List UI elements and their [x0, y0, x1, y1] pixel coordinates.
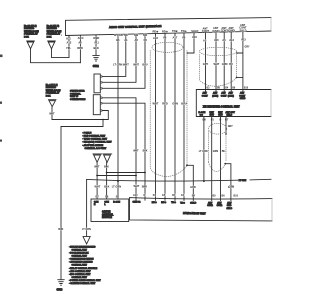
svg-text:LT GRN: LT GRN — [112, 185, 121, 189]
svg-text:(GND): (GND) — [228, 95, 234, 97]
svg-text:GRN: GRN — [229, 185, 235, 189]
svg-text:P8: P8 — [105, 194, 109, 198]
svg-text:GRY: GRY — [245, 46, 250, 49]
shield S2 dotted antenna bundle — [199, 47, 236, 86]
svg-text:B10: B10 — [234, 195, 239, 198]
svg-text:(GND): (GND) — [212, 29, 220, 33]
svg-text:CONTROL: CONTROL — [102, 214, 114, 216]
svg-text:WHT: WHT — [153, 102, 159, 106]
svg-text:CONTROL UNIT: CONTROL UNIT — [72, 249, 88, 251]
svg-text:H: H — [94, 204, 96, 206]
svg-text:SHLD: SHLD — [191, 29, 198, 33]
node shield S1 drain — [186, 164, 188, 166]
svg-text:A8: A8 — [163, 36, 167, 40]
svg-text:A16: A16 — [192, 35, 197, 39]
svg-text:(GND): (GND) — [228, 29, 236, 33]
ground G502 — [93, 55, 99, 61]
svg-text:BOX: BOX — [24, 36, 29, 38]
svg-text:ANT: ANT — [221, 92, 226, 95]
svg-text:A14: A14 — [229, 38, 234, 42]
wire IG1 — [68, 36, 70, 58]
svg-text:YEL: YEL — [66, 46, 71, 50]
svg-text:A11: A11 — [94, 40, 99, 44]
svg-text:GRN 32: GRN 32 — [133, 202, 142, 204]
pin J1-3 — [100, 87, 102, 89]
wire U3 NAV OUT2 — [220, 117, 222, 201]
svg-text:BLK: BLK — [94, 46, 99, 50]
arrow A1 — [83, 237, 90, 244]
svg-text:D1: D1 — [153, 194, 157, 197]
svg-text:A15: A15 — [214, 38, 219, 42]
svg-text:DRIVER'S: DRIVER'S — [24, 28, 35, 30]
fuse F1 triangle — [27, 41, 35, 49]
svg-text:SHLD: SHLD — [227, 115, 233, 117]
svg-text:GRY: GRY — [203, 62, 209, 66]
svg-text:RD⊖: RD⊖ — [162, 29, 169, 33]
svg-text:B4: B4 — [192, 194, 196, 197]
svg-text:ACC: ACC — [78, 36, 84, 40]
fuse F5 triangle — [103, 154, 112, 162]
pin numbers above U3 — [207, 86, 249, 89]
svg-text:(GND): (GND) — [212, 95, 218, 97]
svg-text:TD⊖: TD⊖ — [181, 29, 187, 33]
svg-text:MODULE: MODULE — [102, 217, 112, 219]
pin J2-3 — [100, 110, 102, 112]
svg-text:• IMA (GAS) CONTROL UNIT: • IMA (GAS) CONTROL UNIT — [82, 141, 112, 144]
node B-CAN bus junction at gauge — [117, 180, 119, 182]
wire ANT2 — [215, 32, 217, 89]
svg-text:⊕⊖: ⊕⊖ — [200, 114, 204, 117]
svg-text:BOX: BOX — [47, 36, 52, 38]
svg-text:WHT: WHT — [214, 62, 220, 66]
pin labels U1 antenna section — [202, 23, 247, 33]
wire GND — [95, 35, 97, 55]
svg-text:• RELAY CONTROL MODULE: • RELAY CONTROL MODULE — [69, 267, 98, 270]
svg-text:BLU: BLU — [142, 63, 147, 67]
svg-text:BLK: BLK — [104, 166, 109, 169]
svg-text:WHT: WHT — [133, 63, 139, 67]
svg-text:B5: B5 — [213, 194, 217, 197]
svg-text:• EPS CONTROL UNIT: • EPS CONTROL UNIT — [69, 274, 91, 276]
wire RD- — [164, 34, 166, 201]
svg-text:TD⊕: TD⊕ — [172, 29, 178, 33]
wire TD- — [183, 33, 185, 200]
svg-text:A17: A17 — [173, 36, 178, 40]
pin labels U1 left section (IG1/ACC/GND + pin numbers + wire colors) — [66, 36, 99, 40]
svg-text:A13: A13 — [241, 38, 246, 42]
svg-text:• COMBINATION SWITCH: • COMBINATION SWITCH — [69, 258, 94, 261]
svg-text:NAVIGATION UNIT: NAVIGATION UNIT — [183, 211, 206, 215]
wire U3 B-CAN down to bus — [203, 117, 205, 182]
svg-text:CONTROL: CONTROL — [70, 93, 81, 95]
node L1/L2 junction — [102, 119, 104, 121]
svg-text:GRN: GRN — [222, 62, 228, 66]
svg-text:OUT2: OUT2 — [217, 205, 223, 207]
wire RD+ — [155, 34, 157, 201]
node shield S3 top connection — [225, 133, 227, 135]
svg-text:B-CAN: B-CAN — [113, 201, 120, 204]
wire J2-3 to fuse line — [52, 111, 108, 120]
svg-text:NAV: NAV — [210, 111, 215, 114]
svg-text:• ABS CONTROL UNIT: • ABS CONTROL UNIT — [69, 270, 91, 273]
svg-text:ANT: ANT — [240, 92, 245, 95]
fuse text No.32 — [24, 25, 39, 39]
svg-text:UNDER-DASH: UNDER-DASH — [47, 30, 62, 33]
svg-text:BLK: BLK — [104, 185, 109, 189]
wire U3 shield pin — [225, 117, 227, 135]
svg-text:A6: A6 — [78, 41, 82, 45]
pin labels U1 comm section — [153, 29, 199, 34]
svg-text:• AUTOMATIC LIGHTING: • AUTOMATIC LIGHTING — [69, 261, 93, 264]
svg-text:SUBWOOFER: SUBWOOFER — [70, 91, 85, 93]
svg-text:B8: B8 — [217, 87, 221, 89]
wire F5 down to gauge — [106, 162, 108, 199]
svg-text:RED: RED — [162, 102, 168, 106]
wire U3 NAV OUT1 — [211, 117, 213, 201]
svg-text:DRIVER'S: DRIVER'S — [46, 87, 57, 89]
wire shield S1 drain to nav — [187, 165, 193, 200]
svg-text:B-CAN: B-CAN — [199, 111, 206, 114]
svg-text:WHT: WHT — [133, 149, 139, 152]
svg-text:CAN: CAN — [94, 201, 99, 204]
svg-text:• CLIMATE CONTROL UNIT: • CLIMATE CONTROL UNIT — [69, 282, 96, 285]
svg-text:CONNECTORS: CONNECTORS — [70, 99, 86, 101]
fuse F4 triangle — [93, 154, 102, 162]
pin J2-2 — [100, 102, 102, 104]
fuse text No.4 — [46, 84, 61, 98]
node line1 left junction — [106, 172, 108, 174]
svg-text:B4: B4 — [225, 86, 229, 89]
wire ground bus G503 — [60, 127, 62, 280]
wire J2-2 to nav — [102, 103, 145, 200]
svg-text:RD⊕: RD⊕ — [153, 30, 160, 34]
navigation unit box U4 — [130, 198, 273, 221]
svg-text:SHLD: SHLD — [240, 28, 247, 32]
svg-text:ANT: ANT — [217, 201, 222, 204]
svg-text:GRN: GRN — [190, 186, 196, 189]
svg-text:UNIT 8P: UNIT 8P — [70, 96, 79, 98]
svg-text:LT GRN: LT GRN — [239, 180, 247, 182]
ground G503 — [58, 280, 64, 286]
wire B-CAN LT GRN vertical — [117, 35, 119, 200]
node line2 right junction — [135, 175, 137, 177]
pin J1-1 — [100, 76, 102, 78]
svg-text:G503: G503 — [57, 289, 64, 292]
shield S3 dotted nav pair — [208, 123, 226, 171]
svg-text:XM RECEIVER CONTROL UNIT: XM RECEIVER CONTROL UNIT — [203, 105, 240, 108]
svg-text:• POWER SLIDE CONTROL UNIT: • POWER SLIDE CONTROL UNIT — [69, 280, 101, 282]
svg-text:G502: G502 — [93, 65, 100, 68]
wire SHLD jog top — [187, 33, 194, 53]
list of units B — [69, 245, 101, 285]
wire F1 to ACC — [31, 49, 81, 63]
svg-text:CONT: CONT — [202, 95, 209, 97]
node line1 right junction — [144, 172, 146, 174]
wire F3 down — [51, 107, 53, 120]
wire B-CAN bus line3 LT GRN — [87, 179, 271, 181]
svg-text:A10: A10 — [133, 194, 138, 197]
svg-text:RD⊖: RD⊖ — [161, 201, 166, 204]
svg-text:GRY: GRY — [228, 125, 233, 128]
svg-text:CONT: CONT — [221, 95, 228, 97]
nav pin numbers — [133, 194, 239, 198]
svg-text:ANT: ANT — [227, 202, 232, 205]
pin J1-2 — [100, 81, 102, 83]
svg-text:B10: B10 — [244, 87, 249, 89]
svg-text:SW: SW — [124, 33, 129, 37]
svg-text:BOX: BOX — [46, 95, 51, 97]
svg-text:No.21 (15 A): No.21 (15 A) — [47, 25, 60, 28]
pin J2-1 — [100, 97, 102, 99]
svg-text:ANT: ANT — [229, 92, 234, 95]
svg-text:GRN: GRN — [172, 102, 178, 106]
wire link line2 WHT — [97, 175, 136, 177]
svg-text:• TPMS CONTROL UNIT: • TPMS CONTROL UNIT — [82, 139, 107, 141]
svg-text:FUSE/RELAY: FUSE/RELAY — [47, 33, 61, 36]
svg-text:UNDER-DASH: UNDER-DASH — [46, 89, 61, 92]
svg-text:CONTROL UNIT: CONTROL UNIT — [72, 256, 88, 258]
svg-text:SHLD: SHLD — [240, 98, 246, 100]
fuse F2 triangle — [48, 41, 56, 49]
svg-text:C6: C6 — [144, 38, 148, 42]
svg-text:BLU: BLU — [181, 102, 186, 106]
wire NAV1 to connector J1 pin A — [102, 34, 126, 76]
wire NAV3 to connector J1 pin C — [102, 34, 145, 88]
svg-text:A4: A4 — [222, 38, 226, 42]
connector box J2 — [93, 95, 100, 115]
svg-text:CONTROL UNIT: CONTROL UNIT — [72, 277, 88, 279]
svg-text:WHT: WHT — [95, 185, 101, 189]
svg-text:B7: B7 — [96, 194, 100, 198]
svg-text:B3: B3 — [207, 87, 211, 89]
svg-text:DRIVER'S: DRIVER'S — [47, 28, 58, 30]
svg-text:LT GRN: LT GRN — [113, 63, 122, 67]
wire ACC — [79, 35, 81, 62]
svg-text:ANT: ANT — [203, 92, 208, 95]
pin labels U1 mid section — [114, 33, 147, 37]
svg-text:GAUGE: GAUGE — [102, 211, 111, 214]
svg-text:GND: GND — [93, 36, 99, 40]
svg-text:WHT: WHT — [49, 113, 55, 116]
svg-text:TD⊖: TD⊖ — [180, 201, 185, 204]
list of units A — [82, 132, 112, 150]
svg-text:BLK: BLK — [143, 149, 148, 152]
wire NAV2 to connector J1 pin B — [102, 34, 136, 82]
wire ANT4 — [230, 32, 232, 89]
wire J2-1 to nav — [102, 98, 136, 200]
svg-text:B9: B9 — [232, 87, 236, 89]
svg-text:ANT: ANT — [208, 201, 213, 204]
node B-CAN bus junction at U3 — [203, 180, 205, 182]
svg-text:• FAN CONTROL UNIT: • FAN CONTROL UNIT — [82, 135, 106, 138]
svg-text:IG1: IG1 — [66, 36, 71, 40]
svg-text:• MULTIPLEX/INTEGRATED: • MULTIPLEX/INTEGRATED — [69, 245, 96, 248]
fuse F3 triangle — [48, 100, 56, 107]
svg-text:CONT: CONT — [202, 29, 210, 33]
wire F2 to IG1 — [52, 49, 70, 58]
label wire colors mid-run — [133, 149, 148, 152]
svg-text:A1: A1 — [124, 38, 128, 42]
svg-text:L: L — [104, 204, 106, 206]
svg-text:B6: B6 — [203, 118, 207, 122]
wire shield S3 drain to nav — [225, 164, 231, 201]
svg-text:GRN: GRN — [213, 150, 219, 153]
svg-text:ANT OUT: ANT OUT — [226, 111, 236, 114]
wire link line1 BLK — [107, 172, 145, 174]
svg-text:FUSE/RELAY: FUSE/RELAY — [24, 33, 38, 36]
node line2 left junction — [96, 175, 98, 177]
svg-text:• PGM-FI: • PGM-FI — [82, 132, 91, 134]
svg-text:BLK: BLK — [58, 228, 63, 231]
svg-text:AUDIO UNIT CONTROL UNIT (INTER: AUDIO UNIT CONTROL UNIT (INTERFACE — [109, 24, 162, 29]
svg-text:A18: A18 — [153, 36, 158, 40]
pin stubs U3 top — [206, 90, 243, 92]
wire branch to ground bus — [61, 120, 103, 127]
connector box J1 — [94, 74, 100, 93]
svg-text:SHLD: SHLD — [227, 208, 233, 210]
left edge scan marks — [0, 55, 3, 142]
svg-text:FUSE/RELAY: FUSE/RELAY — [46, 92, 60, 95]
svg-text:NAV: NAV — [218, 111, 223, 114]
wire ANT1 — [205, 33, 207, 90]
fuse text No.21 — [47, 25, 62, 39]
svg-text:BU: BU — [222, 150, 226, 153]
svg-text:• ADAPTER CRUISE: • ADAPTER CRUISE — [82, 144, 103, 147]
svg-text:CONTROL UNIT: CONTROL UNIT — [72, 265, 88, 267]
svg-text:CONTROL ACC UNIT: CONTROL ACC UNIT — [85, 147, 107, 150]
node shield S3 drain — [224, 163, 226, 165]
svg-text:WHT: WHT — [134, 184, 140, 188]
wire bus to arrow — [86, 180, 88, 237]
svg-text:LT GRN: LT GRN — [82, 228, 91, 231]
svg-text:SHLD: SHLD — [190, 203, 196, 205]
svg-text:TD⊕: TD⊕ — [171, 201, 176, 204]
svg-text:OUT1: OUT1 — [207, 205, 213, 207]
svg-text:CAN: CAN — [104, 201, 109, 204]
wire ANT SHLD with jogs — [237, 32, 243, 90]
receiver unit box U3 — [196, 90, 271, 117]
node shield S1 top connection — [187, 52, 189, 54]
svg-text:B-CAN: B-CAN — [114, 33, 122, 37]
svg-text:B6: B6 — [222, 195, 226, 198]
node shield S2 bottom connection — [236, 77, 238, 79]
svg-text:CONT: CONT — [239, 95, 246, 97]
svg-text:B2: B2 — [116, 194, 120, 198]
svg-text:SW: SW — [143, 33, 148, 37]
svg-text:ANT: ANT — [213, 92, 218, 95]
wire ANT3 — [223, 32, 225, 89]
svg-text:B6: B6 — [116, 38, 120, 42]
svg-text:RD⊕: RD⊕ — [152, 201, 157, 204]
svg-text:A12: A12 — [67, 41, 72, 45]
svg-text:No.4 (7.5 A): No.4 (7.5 A) — [46, 84, 58, 87]
svg-text:SW: SW — [134, 33, 139, 37]
wire TD+ — [174, 33, 176, 200]
svg-text:A6: A6 — [182, 35, 186, 39]
svg-text:• DOOR MULTIPLEX: • DOOR MULTIPLEX — [69, 253, 89, 255]
label connectors — [70, 91, 86, 101]
svg-text:D3: D3 — [172, 194, 176, 197]
svg-text:LT GRN: LT GRN — [199, 150, 208, 153]
svg-text:BLK: BLK — [142, 184, 147, 188]
svg-text:RED: RED — [77, 46, 83, 50]
svg-text:A5: A5 — [203, 38, 207, 42]
shield S1 dotted comm pair — [150, 42, 187, 176]
svg-text:UNDER-DASH: UNDER-DASH — [24, 30, 39, 33]
control unit box U1 — [66, 18, 272, 36]
svg-text:WHT: WHT — [123, 63, 129, 67]
node shield S2 top connection — [236, 52, 238, 54]
svg-text:BU: BU — [229, 62, 233, 66]
nav pin names — [133, 201, 197, 205]
svg-text:No.32 (15 A): No.32 (15 A) — [24, 25, 37, 28]
svg-text:1: 1 — [61, 35, 63, 37]
gauge control module box U2 — [91, 199, 129, 222]
svg-text:WHT: WHT — [94, 166, 100, 169]
svg-text:A3: A3 — [135, 38, 139, 42]
wire F4 down to gauge — [96, 162, 98, 199]
